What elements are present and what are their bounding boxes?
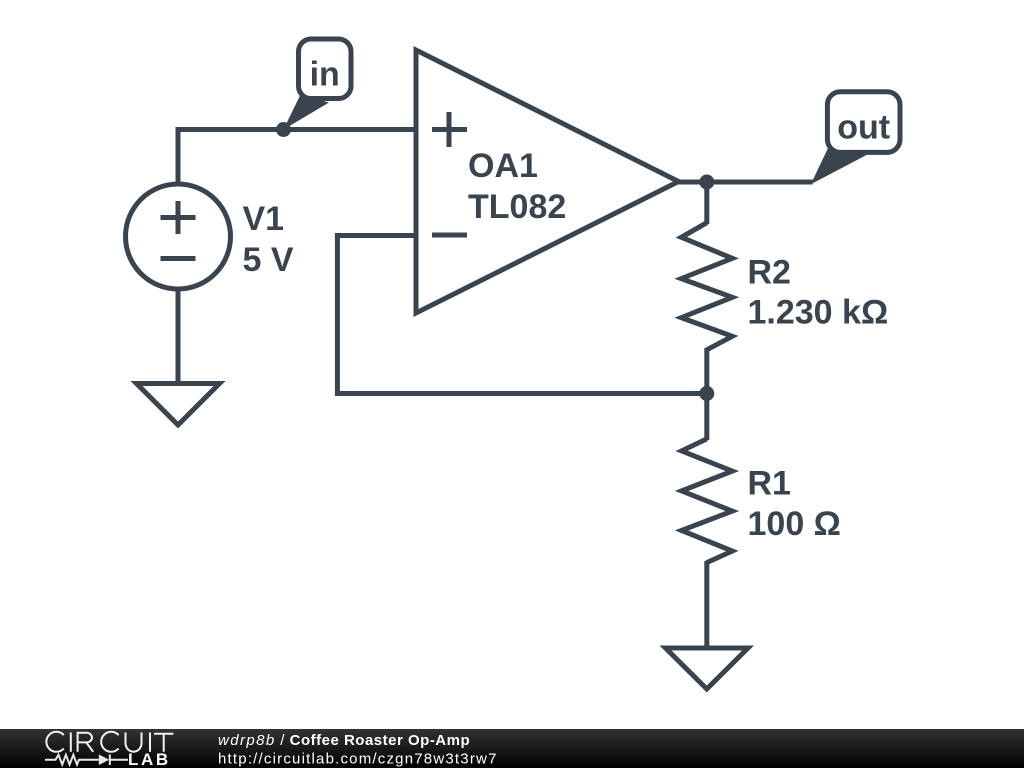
CircuitLab logo resistor-diode squiggle — [45, 754, 128, 765]
flag "out" box — [827, 92, 900, 153]
wire R1 top lead — [704, 394, 709, 441]
wire output: op-amp apex to out flag — [678, 180, 813, 185]
flag "out" pointer wedge — [811, 145, 867, 184]
voltage source V1 — [126, 184, 231, 289]
svg-text:1.230 kΩ: 1.230 kΩ — [748, 293, 889, 331]
node junction dot (output net / R2 top) — [699, 175, 714, 190]
ground GND2 (below R1) — [666, 648, 749, 689]
svg-text:5 V: 5 V — [243, 241, 294, 279]
svg-text:TL082: TL082 — [468, 188, 566, 226]
svg-text:R1: R1 — [748, 465, 791, 503]
V1 minus sign — [161, 256, 196, 261]
node junction dot (feedback node R2/R1) — [699, 386, 714, 401]
wire V1 bottom to ground — [176, 287, 181, 384]
op-amp OA1 triangle — [416, 50, 679, 313]
svg-text:in: in — [310, 56, 340, 94]
wire R2 bottom lead to node — [704, 348, 709, 394]
resistor R2 zigzag — [681, 223, 732, 350]
svg-text:R2: R2 — [748, 253, 791, 291]
op-amp plus input symbol — [432, 112, 467, 147]
svg-text:V1: V1 — [243, 200, 285, 238]
wire R2 top lead — [704, 182, 709, 224]
svg-text:wdrp8b / Coffee Roaster Op-Amp: wdrp8b / Coffee Roaster Op-Amp — [218, 732, 470, 749]
wire input net: V1 top to op-amp non-inverting input — [178, 130, 416, 187]
CircuitLab logo CIRCUIT (drawn letters) — [46, 732, 173, 752]
wire R1 bottom lead to ground — [704, 561, 709, 648]
op-amp minus input symbol — [432, 233, 467, 238]
svg-text:http://circuitlab.com/czgn78w3: http://circuitlab.com/czgn78w3t3rw7 — [218, 751, 498, 768]
V1 plus sign — [161, 201, 196, 234]
svg-text:out: out — [837, 109, 890, 147]
flag "in" pointer wedge — [284, 95, 330, 130]
node junction dot (input net / in flag) — [276, 122, 291, 137]
svg-text:OA1: OA1 — [468, 147, 538, 185]
resistor R1 zigzag — [682, 439, 733, 563]
ground GND1 (left, below V1) — [137, 384, 220, 426]
svg-text:100 Ω: 100 Ω — [748, 505, 841, 543]
svg-text:LAB: LAB — [128, 750, 171, 768]
flag "in" box — [299, 39, 352, 99]
wire feedback net: node to op-amp inverting input — [337, 236, 706, 394]
